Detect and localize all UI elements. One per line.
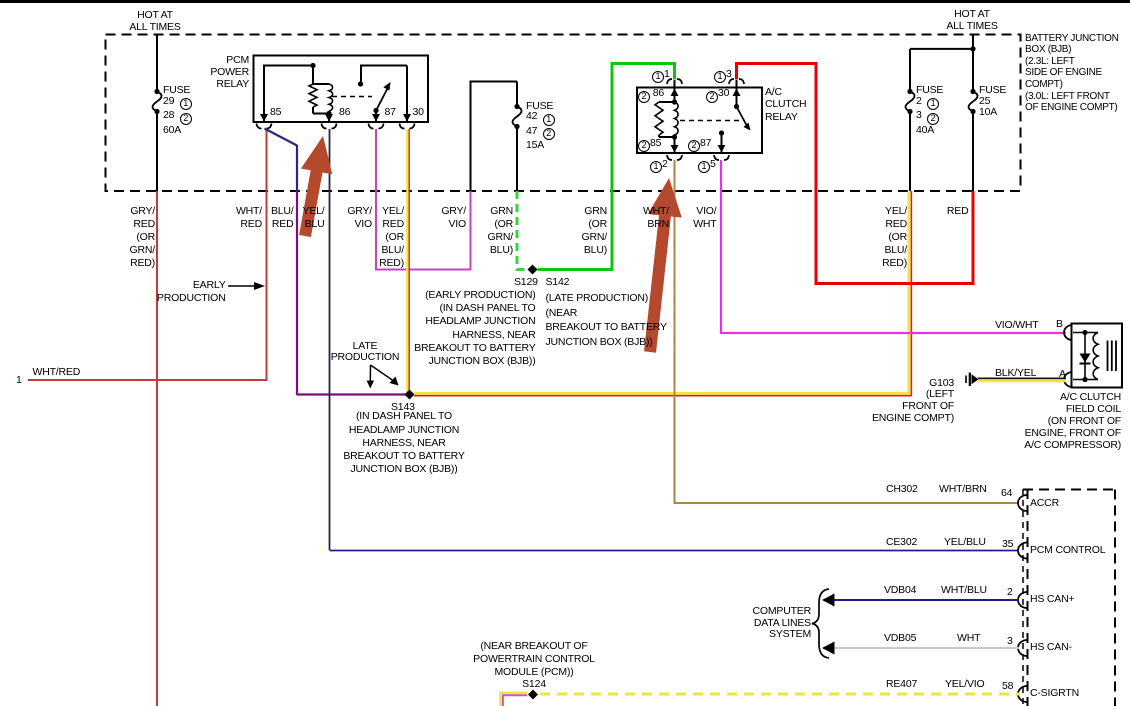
label COMPUTER DATA LINES SYSTEM (711, 606, 811, 641)
branch to fuse 2 (910, 49, 973, 90)
wire fuse 2 to box bottom (909, 114, 911, 192)
label A/C CLUTCH RELAY (765, 86, 806, 124)
relay coil resistor (309, 66, 329, 114)
wire fuse 42 feed riser (in BJB) (470, 82, 518, 192)
wire PNK/YEL from S124 (500, 693, 527, 706)
page top border (0, 0, 1130, 3)
A/C relay coil winding (675, 102, 679, 137)
pin 87 exit arrow (372, 114, 380, 122)
EARLY PRODUCTION pointer arrow (228, 282, 265, 290)
A/C relay pin 1 bracket (667, 79, 682, 84)
relay coil winding (329, 84, 333, 114)
label A/C relay pin (2)85 (638, 137, 661, 153)
label A/C relay pin (1)1 (652, 68, 670, 84)
wire BLK/YEL (978, 378, 1066, 380)
label wire WHT (957, 632, 980, 645)
A/C relay coil bottom node (672, 134, 677, 139)
connector pin HS CAN+ clip (1018, 592, 1027, 608)
field coil pin A clip (1064, 372, 1073, 387)
note S142 late production (546, 291, 667, 349)
wire label VIO/WHT (657, 205, 717, 231)
note S143 (334, 410, 474, 476)
wire YEL/BLU from pin 86 (329, 129, 331, 550)
PCM connector dashed box (1023, 489, 1115, 706)
wire WHT/BLU HS CAN+ (822, 594, 1019, 607)
label HS CAN- (1030, 641, 1072, 654)
field coil diode branch nodes (1082, 330, 1087, 382)
A/C relay pin 85 exit arrow (671, 145, 679, 153)
wire hot-at-all-times right (972, 35, 974, 90)
label circuit RE407 (886, 678, 917, 691)
wire YEL/RED (OR BLU/RED) from pin 30 (407, 129, 409, 392)
connector pin ACCR clip (1018, 495, 1027, 511)
label circuit CH302 (886, 483, 918, 496)
label pin 64 (1001, 487, 1012, 500)
annotation arrow 1 (PCM relay) (299, 136, 332, 237)
A/C relay switch blade (737, 107, 751, 131)
wire WHT/RED from pin 85 (28, 129, 268, 380)
wire label GRY/VIO (pin 87) (312, 205, 372, 231)
diode CR1 (1080, 354, 1091, 364)
wire label RED (909, 205, 969, 218)
label fuse 25 10A (979, 85, 1006, 118)
wire fuse 25 to box bottom (972, 114, 974, 192)
label pin 85 (270, 106, 281, 119)
A/C relay coil resistor (655, 102, 675, 137)
label pin 86 (339, 106, 350, 119)
wire label GRN solid (547, 205, 607, 257)
computer data lines brace (812, 589, 829, 658)
wire GRN (OR GRN/BLU) dashed to S129 (517, 191, 528, 270)
pin 30 internal rail (360, 66, 407, 123)
field coil top conductor (1073, 332, 1098, 334)
note S124 PCM breakout (464, 640, 604, 690)
A/C relay pin 3 stub (736, 80, 738, 107)
label BLK/YEL (995, 367, 1036, 380)
label battery junction box (1025, 33, 1119, 114)
pin 86 internal stub (328, 114, 330, 123)
label VIO/WHT horizontal (995, 319, 1039, 332)
fuse 42/47 15A (512, 104, 521, 129)
field coil pin B clip (1064, 325, 1073, 340)
label pin A (1059, 368, 1066, 381)
field coil diode branch (1084, 333, 1086, 380)
label A/C relay pin (2)87 (688, 137, 711, 153)
fuse 2/3 40A (905, 89, 914, 114)
label A/C relay pin (1)5 (698, 158, 716, 174)
wire label BLU/RED (234, 205, 294, 231)
wire VIO/WHT from pin 5 (721, 160, 1066, 334)
pin 85 internal stub (263, 66, 313, 123)
wire label YEL/RED (fuse 2) (847, 205, 907, 270)
wire WHT/BRN from pin 2 (675, 160, 1020, 504)
connector pin PCM CONTROL clip (1018, 543, 1027, 559)
splice S124 (528, 690, 538, 700)
splice S129 (528, 265, 538, 275)
wire YEL/RED vertical to fuse 2 (909, 191, 912, 396)
label wire YEL/VIO (945, 678, 984, 691)
pin 30 connector bracket (400, 124, 415, 129)
A/C relay switch pivot (734, 104, 739, 109)
connector pin HS CAN- clip (1018, 640, 1027, 656)
label wire WHT/BLU (941, 584, 987, 597)
wire GRN solid S129 to A/C relay pin 1 (538, 62, 677, 271)
label HS CAN+ (1030, 593, 1074, 606)
A/C relay switch contact (719, 130, 724, 153)
junction node above fuse 25 (970, 46, 975, 51)
label fuse 42/47 15A (526, 101, 555, 151)
wire BLU/RED diagonal from pin 85 (265, 129, 298, 146)
label wire 1 number (16, 374, 22, 387)
wire BLU/RED vertical (296, 145, 298, 395)
label circuit VDB04 (884, 584, 916, 597)
label pin 2 (1007, 586, 1013, 599)
wire label WHT/RED (202, 205, 262, 231)
label HOT AT ALL TIMES (right) (922, 8, 1022, 32)
pin 87 connector bracket (369, 124, 384, 129)
wire fuse 42 to box bottom (516, 129, 518, 192)
label pin 87 (385, 106, 396, 119)
label PCM CONTROL (1030, 544, 1105, 557)
A/C clutch relay U2 box (637, 88, 762, 154)
pin 85 exit arrow (260, 114, 268, 122)
PCM power relay U1 box (254, 56, 429, 123)
coil bottom junction node (326, 111, 331, 116)
A/C relay mechanical link (680, 120, 741, 122)
label A/C relay pin (1)3 (714, 68, 732, 84)
coil top junction node (310, 63, 315, 68)
pin 86 connector bracket (322, 124, 337, 129)
A/C relay pin 85/2 stub (674, 137, 676, 153)
label A/C relay pin (2)30 (706, 87, 729, 103)
label HOT AT ALL TIMES (left) (105, 9, 205, 33)
splice S143 (405, 390, 415, 400)
label S142 (546, 276, 570, 289)
wire GRY/VIO from pin 87 (375, 129, 471, 270)
label circuit CE302 (886, 536, 917, 549)
field coil winding (1093, 333, 1098, 380)
label pin 3 (1007, 635, 1013, 648)
label wire 1 WHT/RED (33, 366, 81, 379)
label S143 (391, 401, 415, 414)
pin 87 internal stub (375, 111, 377, 123)
wire label YEL/BLU (265, 205, 325, 231)
label pin 30 (413, 106, 424, 119)
A/C relay pin 30 entry arrow (733, 89, 741, 97)
wire label YEL/RED (pin 30) (344, 205, 404, 270)
coil-switch mechanical link (332, 96, 372, 98)
wire YEL/VIO dashed RE407 (540, 693, 1019, 696)
label pin 35 (1002, 538, 1013, 551)
A/C relay pin 5 bracket (714, 155, 729, 160)
wire hot-at-all-times to fuse 29 (156, 35, 158, 90)
label wire WHT/BRN (939, 483, 987, 496)
label pin B (1056, 318, 1063, 331)
label fuse 29/28 60A (163, 85, 192, 136)
note A/C clutch field coil (1021, 391, 1121, 451)
connector pin C-SIGRTN clip (1018, 686, 1027, 702)
fuse 29/28 60A (152, 89, 161, 114)
wire BLU/RED horizontal to S143 (297, 393, 406, 395)
label pin 58 (1002, 680, 1013, 693)
label S129 (514, 276, 538, 289)
label A/C relay pin (1)2 (650, 158, 668, 174)
pin 85 connector bracket (257, 124, 272, 129)
ground G103 symbol (966, 373, 979, 387)
field coil core lines (1108, 341, 1117, 372)
pin 30 exit arrow (403, 114, 411, 122)
A/C relay pin 1 stub (674, 80, 676, 102)
label circuit VDB05 (884, 632, 916, 645)
switch fixed contact (358, 66, 363, 87)
wire RED from fuse 25 to A/C relay pin 3 (735, 62, 975, 285)
pin 86 exit arrow (325, 114, 333, 122)
LATE PRODUCTION pointer arrows (367, 365, 399, 389)
wire YEL/RED horizontal S143 to BJB riser (414, 393, 912, 395)
A/C relay pin 86 entry arrow (671, 89, 679, 97)
A/C relay coil top node (672, 99, 677, 104)
A/C relay pin 87 exit arrow (718, 145, 726, 153)
label EARLY PRODUCTION (146, 279, 226, 306)
switch blade (373, 82, 390, 113)
wire YEL/BLU horizontal CE302 (330, 550, 1020, 552)
label LATE PRODUCTION (325, 341, 405, 364)
wire label GRN dashed (453, 205, 513, 257)
label C-SIGRTN (1030, 687, 1079, 700)
A/C clutch field coil box (1072, 324, 1123, 388)
note G103 ground location (854, 378, 954, 425)
wire fuse 29 to box bottom (156, 114, 158, 192)
label ACCR (1030, 497, 1059, 510)
label A/C relay pin (2)86 (638, 87, 664, 103)
label PCM POWER RELAY (149, 54, 249, 91)
annotation arrow 2 (A/C relay) (644, 178, 682, 353)
wire label WHT/BRN (609, 205, 669, 231)
A/C relay pin 2 bracket (667, 155, 682, 160)
label fuse 2/3 40A (916, 85, 943, 136)
fuse 25 10A (968, 89, 977, 114)
A/C relay pin 3 bracket (729, 79, 744, 84)
wire WHT HS CAN- (822, 642, 1019, 655)
note S129 early production (396, 289, 536, 369)
label wire YEL/BLU (944, 536, 986, 549)
wire label GRY/VIO (fuse 42) (406, 205, 466, 231)
wire GRY/RED (OR GRN/RED) vertical (156, 191, 158, 706)
field coil bottom conductor (1073, 379, 1098, 381)
battery junction box (BJB) dashed boundary (106, 35, 1021, 192)
wire label GRY/RED (95, 205, 155, 270)
